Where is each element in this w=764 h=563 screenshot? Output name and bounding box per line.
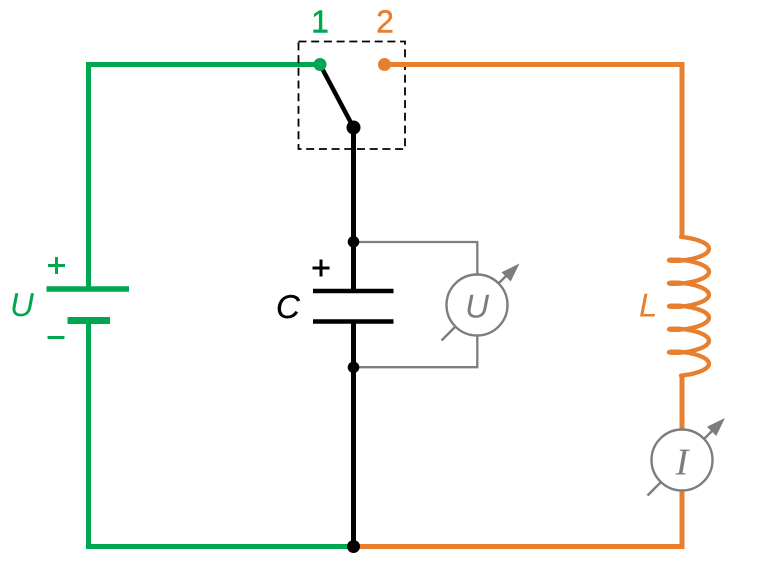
battery - polarity mark: [48, 336, 65, 339]
wire: green from battery - terminal down and across to bottom junction: [89, 321, 355, 547]
voltmeter U needle: [442, 264, 520, 341]
wire: orange from switch contact 2 across and down to inductor: [385, 65, 683, 239]
ammeter I needle: [648, 418, 726, 496]
node B junction dot (capacitor bottom / voltmeter tap): [348, 362, 360, 374]
svg-text:I: I: [675, 442, 691, 484]
switch contact 2 (orange dot): [378, 58, 391, 71]
svg-text:U: U: [10, 286, 34, 323]
switch lever (thrown to position 1): [320, 65, 354, 128]
wire: black from capacitor bottom plate to bottom junction: [351, 324, 356, 547]
wire: gray voltmeter leads from node A around to node B: [354, 242, 478, 367]
node 1 label: [311, 4, 329, 40]
wire: orange from inductor through ammeter to bottom junction: [354, 374, 683, 547]
label L (inductance): [639, 287, 657, 324]
ammeter I body: [652, 430, 713, 491]
svg-text:C: C: [276, 288, 301, 325]
switch contact 1 (green dot): [314, 58, 327, 71]
svg-text:2: 2: [376, 4, 394, 40]
label U (source voltage): [10, 286, 34, 323]
bottom junction dot (node B to source return): [347, 540, 360, 553]
wire: green from battery + terminal up and across to switch contact 1: [89, 65, 321, 290]
svg-text:U: U: [465, 288, 489, 325]
capacitor + polarity mark: [313, 260, 330, 277]
switch pivot junction dot: [347, 121, 361, 135]
svg-text:1: 1: [311, 4, 329, 40]
switch S1 dashed enclosure: [299, 42, 406, 150]
capacitor C plates: [313, 291, 394, 322]
node A junction dot (capacitor top / voltmeter tap): [348, 236, 360, 248]
battery + polarity mark: [48, 257, 65, 274]
inductor L coil: [669, 237, 709, 376]
voltmeter U body: [447, 275, 508, 336]
label C (capacitance): [276, 288, 301, 325]
wire: black from switch pivot down to capacitor top plate: [351, 128, 356, 290]
node 2 label: [376, 4, 394, 40]
battery U (voltage source): [47, 289, 130, 321]
svg-text:L: L: [639, 287, 657, 324]
